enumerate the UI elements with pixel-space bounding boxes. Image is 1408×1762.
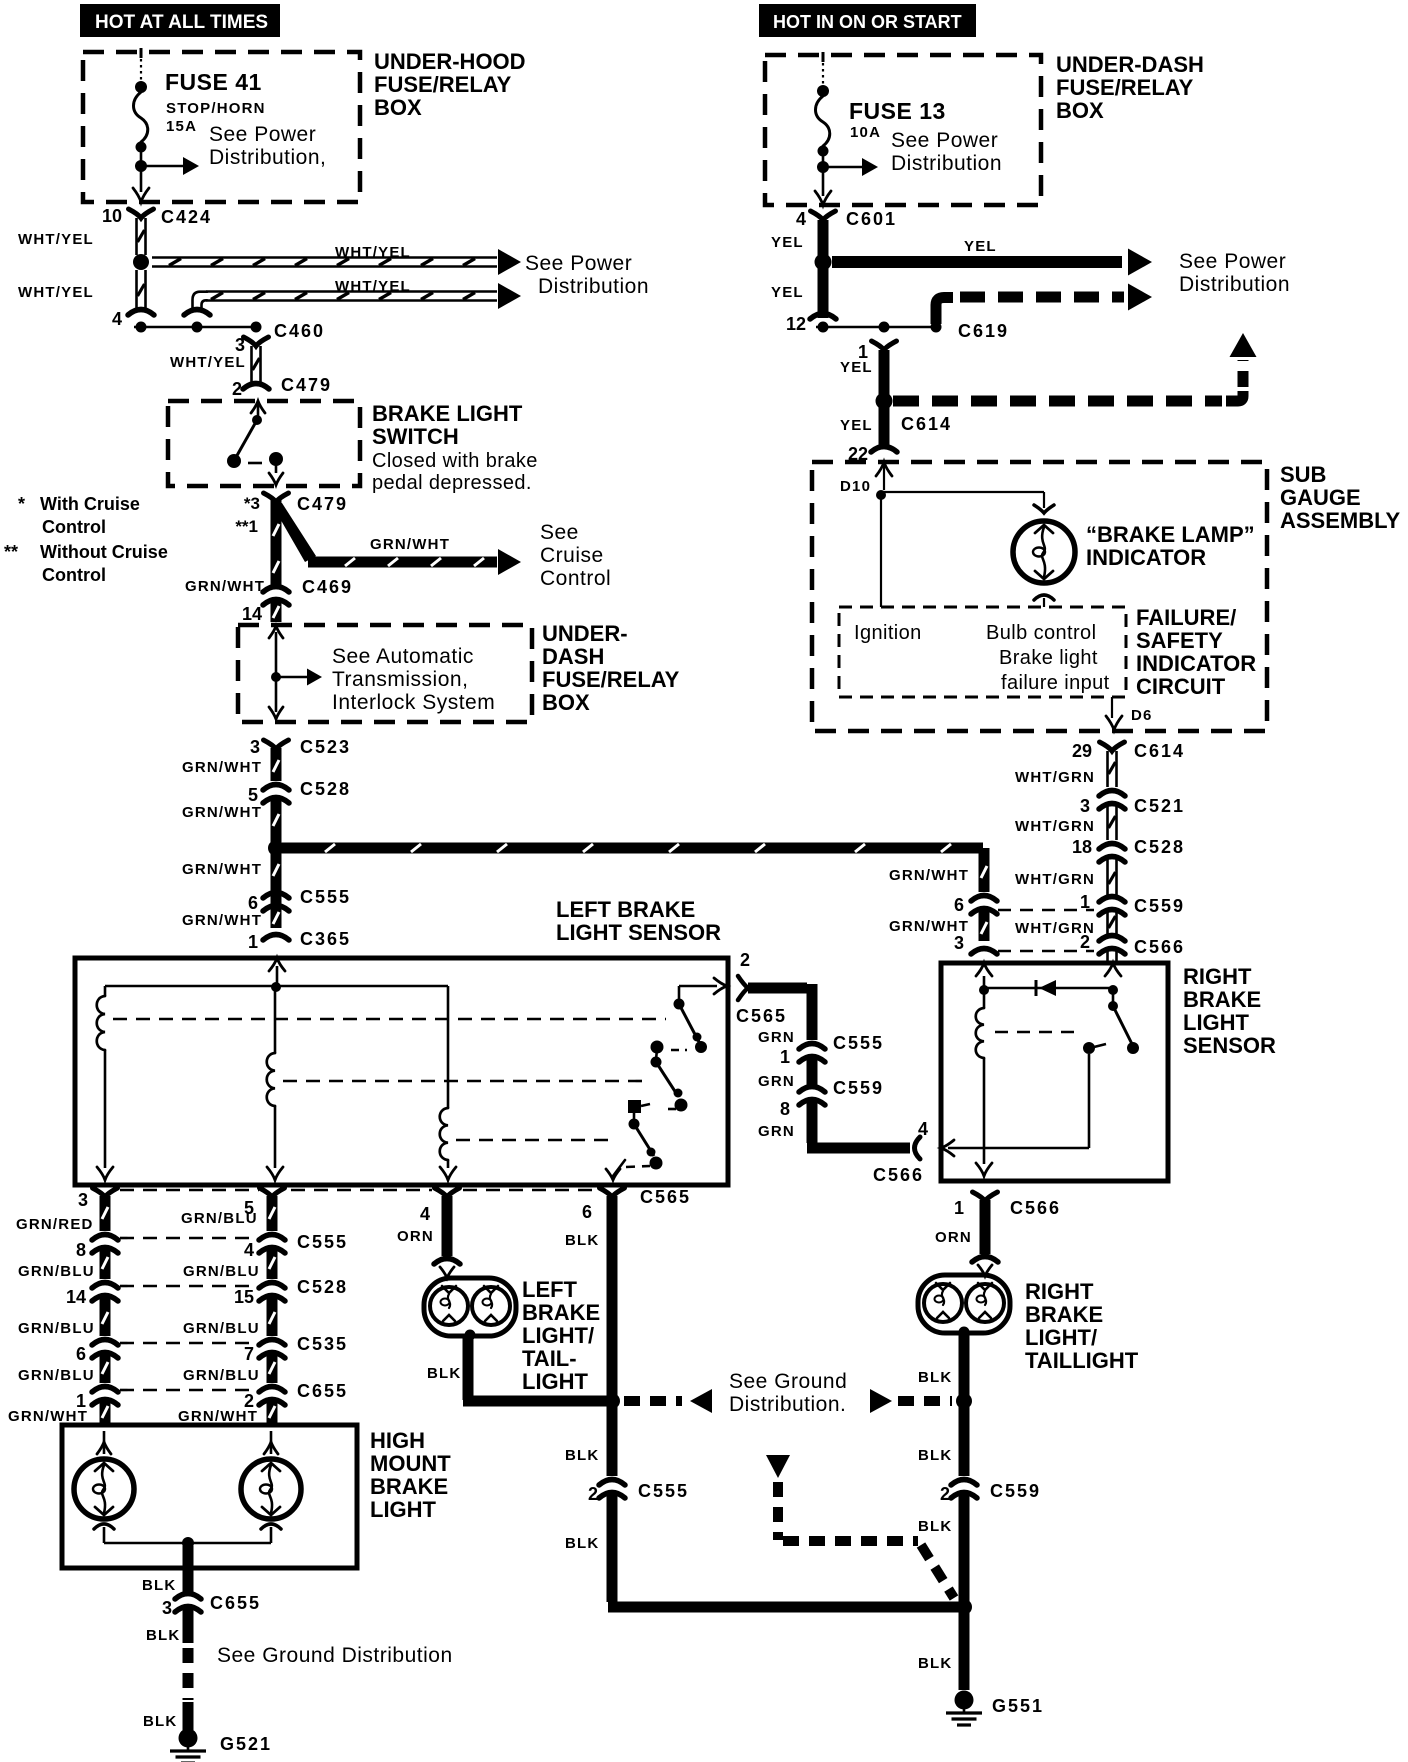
svg-text:29: 29 [1072, 741, 1092, 761]
connector pair row E col2 [259, 1387, 285, 1393]
svg-text:15A: 15A [166, 118, 197, 135]
wire BLK (pin6 down) [607, 1196, 618, 1476]
svg-text:LIGHT: LIGHT [522, 1369, 589, 1394]
switch contact A dot [227, 454, 241, 468]
svg-text:LIGHT/: LIGHT/ [522, 1323, 594, 1348]
svg-text:GAUGE: GAUGE [1280, 485, 1361, 510]
arrow down coil2 (pin5) [267, 1167, 283, 1180]
svg-text:4: 4 [796, 209, 806, 229]
connector pair row B col2 [259, 1235, 285, 1241]
junction dot on fuse 13 output [817, 161, 829, 173]
connector C469 pair [263, 587, 289, 593]
bulb1 tail [103, 1527, 106, 1543]
svg-text:FAILURE/: FAILURE/ [1136, 605, 1236, 630]
svg-text:BRAKE LIGHT: BRAKE LIGHT [372, 401, 523, 426]
sensor coil2 feed [274, 990, 277, 1053]
wire GRN/WHT (C469 to under-dash box) [271, 600, 282, 622]
arrow down through switch box bottom border [269, 473, 283, 485]
svg-text:Transmission,: Transmission, [332, 668, 468, 691]
arrow up through switch box top border [251, 401, 265, 413]
sensor coil3 feed [447, 986, 450, 1108]
svg-text:GRN/WHT: GRN/WHT [370, 536, 450, 553]
svg-text:YEL: YEL [771, 234, 804, 251]
sensor switch feed wire [678, 986, 681, 1000]
right sensor left feed [983, 976, 986, 1008]
switch lever (open) [235, 420, 257, 459]
wire YEL (C619 down) [879, 350, 890, 395]
svg-text:10: 10 [102, 206, 122, 226]
arrow down into right taillight [978, 1265, 992, 1276]
svg-text:Control: Control [42, 565, 106, 585]
dashes to ground dist arrow (left) [624, 1396, 682, 1406]
arrow down through fuse box border [133, 188, 149, 202]
connector end skirt pin22 [871, 447, 897, 453]
svg-text:C528: C528 [297, 1277, 348, 1297]
wire WHT/GRN (C566 to sensor) [1106, 949, 1109, 962]
right switch dashed row [995, 1031, 1082, 1034]
svg-text:*: * [18, 494, 25, 514]
connector skirt C365 [263, 935, 289, 941]
svg-text:C469: C469 [302, 577, 353, 597]
svg-text:UNDER-HOOD: UNDER-HOOD [374, 49, 526, 74]
svg-text:Ignition: Ignition [854, 622, 922, 644]
wire WHT/GRN (C559 to C566) [1106, 910, 1109, 935]
dashed link pin3-C566 [998, 950, 1094, 952]
svg-text:BLK: BLK [918, 1369, 952, 1386]
branch wire to cruise control (diagonal) [271, 503, 316, 562]
wire GRN (C559 down and right) [807, 1100, 818, 1143]
svg-text:Bulb control: Bulb control [986, 622, 1096, 644]
svg-text:STOP/HORN: STOP/HORN [166, 100, 266, 117]
svg-text:GRN/WHT: GRN/WHT [8, 1408, 88, 1425]
switch lever wire stub [257, 401, 260, 416]
svg-text:HIGH: HIGH [370, 1428, 425, 1453]
svg-text:C365: C365 [300, 929, 351, 949]
hatched wire GRN/WHT horizontal (to right sensor) [282, 843, 983, 854]
right sensor coil [976, 1008, 984, 1058]
svg-text:BLK: BLK [142, 1577, 176, 1594]
arrow down through fuse box 13 border [815, 191, 831, 205]
wire D6 exit [1111, 697, 1113, 718]
svg-text:UNDER-DASH: UNDER-DASH [1056, 52, 1204, 77]
svg-text:C528: C528 [1134, 837, 1185, 857]
wire WHT/YEL vertical (C424 to junction) [135, 218, 138, 255]
diode [1039, 980, 1056, 996]
wire GRN/WHT (col2 r5) [267, 1400, 278, 1424]
wire GRN/WHT (col1 r5) [100, 1400, 111, 1424]
wire BLK corner to G551 junction [608, 1602, 958, 1613]
svg-text:8: 8 [780, 1099, 790, 1119]
connector C619 pin1 (female up) [872, 341, 897, 350]
svg-text:YEL: YEL [771, 284, 804, 301]
svg-text:See Automatic: See Automatic [332, 645, 474, 668]
svg-text:GRN/WHT: GRN/WHT [185, 578, 265, 595]
wire GRN/BLU (col2 r4) [267, 1353, 278, 1383]
wire WHT/YEL (C460 to C479) [250, 346, 253, 382]
svg-text:1: 1 [248, 932, 258, 952]
svg-text:12: 12 [786, 314, 806, 334]
svg-text:GRN/WHT: GRN/WHT [182, 759, 262, 776]
connector C479 pin *3 (female up) [264, 493, 289, 502]
svg-text:GRN/WHT: GRN/WHT [182, 912, 262, 929]
connector C523 (female up) [264, 740, 289, 749]
svg-text:C566: C566 [1010, 1198, 1061, 1218]
junction dot at sensor entry [271, 982, 281, 992]
branch arrow to interlock [276, 676, 308, 679]
wire GRN/WHT (C555 to C365) [271, 854, 282, 928]
svg-text:Distribution: Distribution [538, 275, 649, 298]
wire WHT/GRN (C521 to C528) [1106, 804, 1109, 840]
switch output stub [275, 463, 278, 473]
svg-text:Interlock System: Interlock System [332, 691, 495, 714]
dashed YEL wire corner [936, 298, 953, 325]
arrow up into left sensor box [269, 958, 285, 971]
svg-text:C479: C479 [281, 375, 332, 395]
svg-text:4: 4 [244, 1240, 254, 1260]
dashed row C528 [120, 1285, 253, 1288]
svg-text:RIGHT: RIGHT [1183, 964, 1252, 989]
svg-text:SENSOR: SENSOR [1183, 1033, 1276, 1058]
svg-text:2: 2 [1080, 932, 1090, 952]
wire BLK (right taillight down) [959, 1335, 970, 1476]
wire from sensor entry to bus [276, 966, 279, 990]
connector C601 (female up) [811, 211, 836, 220]
fuse F13 [822, 52, 825, 62]
wire BLK solid (below C655) [183, 1607, 194, 1643]
svg-text:2: 2 [740, 950, 750, 970]
svg-text:Without Cruise: Without Cruise [40, 542, 168, 562]
svg-text:GRN/BLU: GRN/BLU [18, 1367, 95, 1384]
wire GRN/WHT (C479 to C469) [271, 499, 282, 585]
svg-text:HOT IN ON OR START: HOT IN ON OR START [773, 12, 962, 32]
high mount brake light box [62, 1425, 357, 1568]
svg-text:BLK: BLK [143, 1713, 177, 1730]
connector C559 pair (right) [1099, 897, 1125, 903]
right switch output [1088, 1054, 1091, 1148]
svg-text:C565: C565 [640, 1187, 691, 1207]
svg-text:ORN: ORN [935, 1229, 972, 1246]
connector pair row E col1 [92, 1387, 118, 1393]
solid arrowhead (lower power dist) [498, 283, 521, 309]
svg-text:G521: G521 [220, 1734, 272, 1754]
bulb connector bottom [1034, 595, 1054, 600]
wire YEL (C601 down) [818, 220, 829, 256]
connector skirt C566 (pointing right) [915, 1137, 921, 1159]
wire GRN/BLU (col1 r2) [100, 1248, 111, 1279]
svg-text:C566: C566 [1134, 937, 1185, 957]
dashed BLK stub horizontal [783, 1536, 918, 1546]
wire inside under-dash box [275, 632, 278, 712]
svg-text:C559: C559 [1134, 896, 1185, 916]
left brake light sensor box [75, 958, 728, 1185]
wire BLK (C555 down) [607, 1493, 618, 1602]
switch2 contact dots [651, 1041, 664, 1054]
connector C424 (female up) [129, 209, 154, 218]
connector pair row D col2 [259, 1340, 285, 1346]
svg-text:GRN/BLU: GRN/BLU [183, 1367, 260, 1384]
junction dot high mount [182, 1537, 194, 1549]
dashed BLK stub vertical [773, 1482, 783, 1540]
svg-text:BLK: BLK [918, 1518, 952, 1535]
svg-text:Distribution.: Distribution. [729, 1393, 846, 1416]
svg-text:LEFT BRAKE: LEFT BRAKE [556, 897, 695, 922]
sub gauge assembly box (dashed) [812, 462, 1267, 731]
right sensor junction dot left [979, 985, 989, 995]
svg-text:See Ground Distribution: See Ground Distribution [217, 1644, 453, 1667]
wire GRN/WHT (C523 to C528) [271, 748, 282, 781]
wire BLK dashed (ground distribution) [183, 1648, 194, 1700]
svg-text:G551: G551 [992, 1696, 1044, 1716]
wire WHT/YEL vertical (junction to pin4) [135, 270, 138, 308]
sensor dashed row 2 [283, 1080, 648, 1083]
dot on C619 line (mid) [879, 322, 890, 333]
svg-text:TAILLIGHT: TAILLIGHT [1025, 1348, 1139, 1373]
switch1 contact dot [674, 999, 685, 1010]
bulb connector top (female) [1034, 505, 1054, 513]
sensor dashed row 3 [456, 1139, 614, 1142]
svg-text:HOT AT ALL TIMES: HOT AT ALL TIMES [95, 12, 268, 33]
arrow down coil1 (pin3) [97, 1167, 113, 1180]
sensor coil2 tail [274, 1106, 277, 1168]
svg-text:1: 1 [780, 1047, 790, 1067]
sensor coil 1 [97, 996, 105, 1050]
svg-text:BOX: BOX [1056, 98, 1104, 123]
sensor coil1 feed [104, 986, 107, 996]
dot on C619 line (left) [818, 322, 829, 333]
arrow up bulb1 [103, 1431, 106, 1454]
svg-text:With Cruise: With Cruise [40, 494, 140, 514]
switch2 lever [656, 1062, 678, 1096]
svg-text:See Power: See Power [891, 129, 998, 152]
solid arrowhead dashed YEL [1128, 284, 1152, 311]
svg-text:3: 3 [250, 737, 260, 757]
hatched wire GRN/WHT to cruise control [308, 557, 497, 568]
switch2 lever dots [674, 1089, 683, 1098]
sensor dashed row 1 [113, 1018, 666, 1021]
dashed link pin6-C559 [998, 909, 1094, 911]
wire ORN (left taillight) [442, 1196, 453, 1256]
svg-text:BRAKE: BRAKE [370, 1474, 448, 1499]
sensor coil 2 [267, 1053, 275, 1106]
connector C555 pair (link) [799, 1044, 825, 1050]
ground distribution stub arrow (triangle down) [766, 1455, 790, 1478]
svg-text:MOUNT: MOUNT [370, 1451, 451, 1476]
junction dot BLK right [956, 1393, 972, 1409]
switch3 link [633, 1113, 636, 1120]
connector top pin4 (ORN) [435, 1188, 460, 1197]
wire GRN/BLU (col1 r4) [100, 1353, 111, 1383]
bulb1 bottom skirt [94, 1524, 114, 1529]
junction dot GRN/WHT [268, 840, 284, 856]
svg-text:GRN/WHT: GRN/WHT [182, 861, 262, 878]
wire to bulb top [1043, 492, 1045, 508]
switch3 contact square [628, 1100, 641, 1113]
dashes to junction (right) [898, 1396, 952, 1406]
svg-text:10A: 10A [850, 124, 881, 141]
svg-text:BRAKE: BRAKE [1183, 987, 1261, 1012]
svg-text:C521: C521 [1134, 796, 1185, 816]
arrow up through under-dash box border [269, 626, 283, 638]
svg-text:LIGHT: LIGHT [1183, 1010, 1250, 1035]
svg-text:6: 6 [76, 1344, 86, 1364]
arrow up into right sensor box [976, 963, 992, 976]
wire BLK (left taillight down) [463, 1338, 474, 1400]
svg-text:6: 6 [248, 893, 258, 913]
svg-text:See Ground: See Ground [729, 1370, 847, 1393]
svg-text:WHT/GRN: WHT/GRN [1015, 871, 1095, 888]
svg-text:4: 4 [420, 1204, 430, 1224]
svg-text:BOX: BOX [374, 95, 422, 120]
wire junction to bulb (horizontal) [881, 491, 1044, 493]
connector C559 pair (link) [799, 1087, 825, 1093]
svg-text:GRN/BLU: GRN/BLU [18, 1320, 95, 1337]
svg-text:Distribution,: Distribution, [209, 146, 326, 169]
svg-text:7: 7 [244, 1344, 254, 1364]
right sensor top link [984, 987, 1113, 990]
wire WHT/GRN (C528 to C559) [1106, 857, 1109, 898]
arrow down coil3 (pin4) [440, 1167, 456, 1180]
dashed row C555 [120, 1237, 253, 1240]
connector top pin3 [93, 1188, 118, 1197]
bulb2 tail [270, 1527, 273, 1543]
svg-text:YEL: YEL [840, 417, 873, 434]
svg-text:D6: D6 [1131, 707, 1153, 724]
ground G521 [179, 1729, 198, 1748]
svg-text:LIGHT/: LIGHT/ [1025, 1325, 1097, 1350]
svg-text:15: 15 [234, 1287, 254, 1307]
right taillight assembly [918, 1275, 1010, 1333]
connector C555 pair (bottom) [599, 1480, 625, 1486]
svg-text:BLK: BLK [565, 1232, 599, 1249]
dashed row C535 [120, 1342, 253, 1345]
svg-text:ORN: ORN [397, 1228, 434, 1245]
wire ORN (right taillight) [980, 1200, 991, 1254]
svg-text:YEL: YEL [840, 359, 873, 376]
svg-text:3: 3 [78, 1190, 88, 1210]
wire GRN/BLU (pin5 col) [267, 1196, 278, 1231]
svg-text:BLK: BLK [565, 1535, 599, 1552]
dot on C619 line (right) [931, 322, 942, 333]
svg-text:3: 3 [954, 933, 964, 953]
switch contact B dot [269, 452, 283, 466]
failure/safety indicator circuit box (dashed) [839, 607, 1126, 697]
svg-text:INDICATOR: INDICATOR [1136, 651, 1256, 676]
svg-text:Cruise: Cruise [540, 544, 604, 567]
svg-text:SWITCH: SWITCH [372, 424, 459, 449]
high mount bulb 1 [74, 1459, 134, 1519]
under-hood fuse/relay box (dashed) [83, 52, 360, 202]
svg-text:See: See [540, 521, 579, 544]
under-dash fuse/relay box right (dashed) [765, 55, 1041, 205]
arrow up into right sensor box (right pin) [1105, 963, 1121, 976]
svg-text:*3: *3 [244, 494, 260, 513]
svg-text:C614: C614 [1134, 741, 1185, 761]
svg-text:14: 14 [242, 604, 262, 624]
connector pair pin6 right [971, 896, 997, 902]
svg-text:1: 1 [954, 1198, 964, 1218]
sensor coil 3 [440, 1108, 448, 1160]
svg-text:YEL: YEL [964, 238, 997, 255]
corner GRN/WHT down [979, 848, 990, 892]
svg-text:CIRCUIT: CIRCUIT [1136, 674, 1226, 699]
switch1 dashes [671, 1049, 687, 1052]
header: HOT AT ALL TIMES [80, 4, 280, 37]
svg-text:18: 18 [1072, 837, 1092, 857]
connector C521 pair [1099, 791, 1125, 797]
svg-text:GRN/RED: GRN/RED [16, 1216, 94, 1233]
brake light switch box (dashed) [168, 401, 360, 486]
svg-text:3: 3 [1080, 796, 1090, 816]
svg-text:GRN/BLU: GRN/BLU [18, 1263, 95, 1280]
connector C565 pin2 (female left) [738, 976, 748, 1000]
wire GRN/BLU (col2 r3) [267, 1296, 278, 1336]
svg-text:C424: C424 [161, 207, 212, 227]
svg-text:BLK: BLK [918, 1655, 952, 1672]
switch3 contact dot [629, 1119, 640, 1130]
dot on C460 line (right) [251, 322, 262, 333]
connector pair row C col1 [92, 1283, 118, 1289]
branch arrow inside fuse box 13 [823, 166, 864, 169]
right switch lever [1113, 1006, 1133, 1046]
arrow down into left taillight [440, 1267, 454, 1278]
right switch feed [1112, 992, 1115, 1004]
svg-text:2: 2 [940, 1484, 950, 1504]
svg-text:GRN/WHT: GRN/WHT [182, 804, 262, 821]
svg-text:pedal depressed.: pedal depressed. [372, 472, 532, 494]
svg-text:C555: C555 [638, 1481, 689, 1501]
connector end skirt pin2 C479 [243, 384, 269, 390]
wire BLK solid (to G521) [183, 1702, 194, 1730]
svg-text:BLK: BLK [146, 1627, 180, 1644]
svg-text:GRN: GRN [758, 1073, 795, 1090]
junction dot WHT/YEL [133, 254, 149, 270]
svg-text:C523: C523 [300, 737, 351, 757]
svg-text:2: 2 [588, 1484, 598, 1504]
right switch lever dot [1127, 1042, 1139, 1054]
svg-text:C479: C479 [297, 494, 348, 514]
junction dot YEL [815, 254, 832, 271]
wire GRN/RED (pin3 col) [100, 1196, 111, 1231]
svg-text:GRN: GRN [758, 1029, 795, 1046]
svg-text:failure input: failure input [1001, 672, 1110, 694]
wire GRN (C565 right) [748, 983, 807, 994]
switch2 dash [668, 1108, 676, 1111]
solid arrowhead dashed YEL up [1230, 333, 1257, 357]
connector C555 pair (left col) [263, 893, 289, 899]
svg-text:BLK: BLK [427, 1365, 461, 1382]
connector top pin5 [260, 1188, 285, 1197]
wire GRN (C555 to C559) [807, 1057, 818, 1086]
wire junction down to ignition [880, 495, 882, 607]
svg-text:UNDER-: UNDER- [542, 621, 628, 646]
connector end skirt (right taillight) [972, 1257, 998, 1263]
switch1 lever [679, 1004, 699, 1042]
svg-text:GRN/BLU: GRN/BLU [183, 1263, 260, 1280]
wire WHT/GRN (C614 to C521) [1106, 751, 1109, 787]
connector end skirt pin 4 [128, 310, 154, 316]
wire BLK (left taillight corner) [463, 1396, 606, 1407]
connector C566 pair (right) [1099, 936, 1125, 942]
connector end skirt (left taillight) [434, 1259, 460, 1265]
connector C528 pair (right) [1099, 844, 1125, 850]
switch lever dot [252, 415, 262, 425]
svg-text:SUB: SUB [1280, 462, 1326, 487]
svg-text:C559: C559 [833, 1078, 884, 1098]
connector top pin6 (BLK) [600, 1188, 625, 1197]
connector pair row B col1 [92, 1235, 118, 1241]
connector top pin1 (ORN right) [973, 1192, 998, 1201]
svg-text:**: ** [4, 542, 18, 562]
